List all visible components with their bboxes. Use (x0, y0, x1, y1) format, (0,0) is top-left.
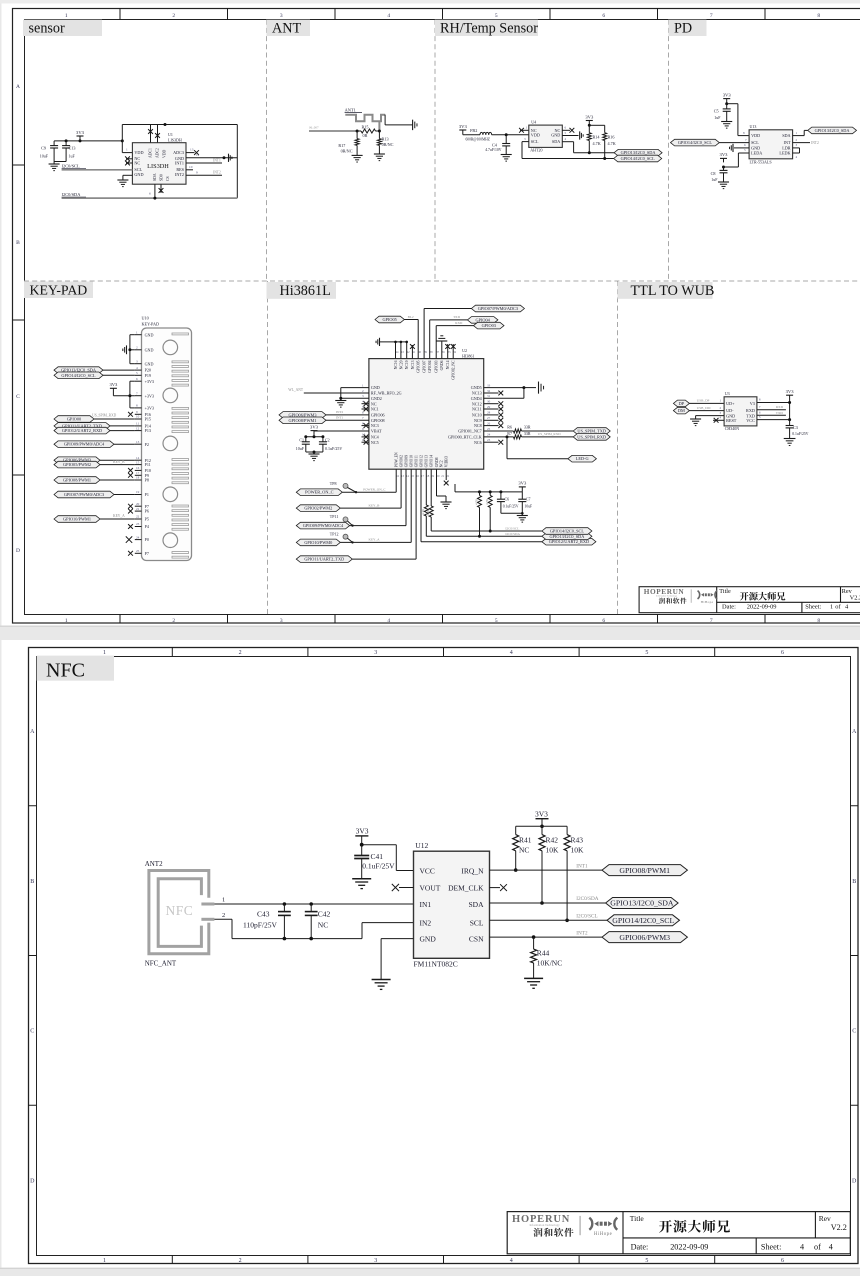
svg-text:NC10: NC10 (472, 413, 482, 418)
svg-text:INT2: INT2 (213, 171, 221, 175)
svg-text:Date:: Date: (722, 604, 736, 611)
connector U10 pins (135, 330, 154, 556)
svg-text:19: 19 (136, 490, 140, 494)
svg-text:Information Technology: Information Technology (656, 594, 678, 597)
svg-text:C2: C2 (325, 438, 330, 443)
svg-text:SD0: SD0 (160, 174, 164, 181)
svg-text:AHT20: AHT20 (530, 148, 542, 153)
svg-text:6: 6 (602, 13, 605, 19)
svg-text:GPIO05: GPIO05 (382, 317, 396, 322)
antenna ANT1 meander (345, 115, 385, 131)
svg-text:2022-09-09: 2022-09-09 (670, 1243, 708, 1252)
wire U3 GND (696, 411, 725, 419)
wire U4 GND (562, 131, 578, 136)
svg-text:VIDEO: VIDEO (445, 455, 449, 467)
no-connect U2 NC9 (484, 418, 504, 423)
node junction top rail (164, 123, 167, 126)
svg-text:GPIO10/PWM1: GPIO10/PWM1 (63, 516, 91, 521)
svg-text:INT1: INT1 (576, 863, 588, 869)
svg-text:NC19: NC19 (405, 360, 409, 369)
IC U1 LIS3DH (132, 132, 186, 184)
power 3V3 pullups NFC (535, 810, 549, 829)
svg-text:0.1uF/25V: 0.1uF/25V (792, 432, 809, 436)
wire FB2 line (463, 134, 529, 136)
svg-text:BL2: BL2 (408, 315, 414, 319)
ground arrow ANT (413, 120, 417, 130)
svg-text:D: D (30, 1178, 35, 1184)
net flag GPIO13/I2C0_SDA PD (808, 127, 857, 134)
svg-text:GPIO04: GPIO04 (428, 360, 432, 372)
svg-text:C: C (30, 1029, 34, 1035)
svg-text:I2C0/SDA: I2C0/SDA (505, 532, 520, 536)
svg-text:GND: GND (134, 172, 143, 177)
svg-text:GPIO02: GPIO02 (400, 455, 404, 467)
svg-text:GPIO11/UART2_TXD: GPIO11/UART2_TXD (304, 557, 344, 562)
svg-text:GPIO14/I2C0_SCL: GPIO14/I2C0_SCL (61, 373, 96, 378)
svg-text:GPIO08: GPIO08 (371, 418, 385, 423)
no-connect U12 DEM_CLK (490, 884, 507, 891)
svg-text:UD+: UD+ (726, 401, 735, 406)
capacitor C2 (319, 437, 342, 452)
capacitor C41 (354, 845, 395, 879)
svg-text:0R/NC: 0R/NC (382, 142, 394, 147)
node junction GND right (223, 156, 226, 159)
capacitor C4 (485, 135, 510, 155)
wire RF antenna (288, 388, 369, 393)
IC U2 left pin labels (362, 383, 402, 444)
ground C41 (352, 879, 371, 889)
svg-text:5: 5 (495, 618, 498, 624)
svg-text:NC13: NC13 (472, 391, 482, 396)
svg-text:P6: P6 (145, 509, 149, 514)
svg-text:24: 24 (487, 433, 491, 437)
no-connect U2 NC1 pin5 (362, 407, 369, 412)
net flag GPIO08/PWM1 U2 (279, 416, 369, 424)
title text page 1 (740, 592, 786, 601)
wire GPIO13 route (421, 469, 542, 536)
net flag GPIO11/UART2_TXD KP (54, 423, 135, 430)
svg-text:P4: P4 (145, 524, 149, 529)
svg-text:RH/Temp Sensor: RH/Temp Sensor (440, 20, 538, 36)
net flag GPIO00 (54, 414, 135, 423)
svg-text:10K: 10K (571, 846, 585, 855)
wire pullup rail NFC (516, 826, 567, 834)
svg-text:POW_EN: POW_EN (395, 452, 399, 467)
no-connect U4 NC1 (519, 126, 529, 133)
svg-text:C41: C41 (371, 852, 384, 861)
capacitor C7 (518, 492, 532, 513)
power 3V3 U3 (786, 389, 795, 395)
svg-text:10: 10 (136, 415, 140, 419)
no-connect U2 NC14 (445, 344, 450, 359)
ground GND8 (440, 502, 451, 509)
node junction R13 (378, 130, 381, 133)
net flag GPIO05/PWM2 KP (54, 460, 135, 468)
svg-text:6: 6 (149, 192, 151, 196)
wire GPIO14 route (426, 469, 542, 531)
svg-text:NC5: NC5 (371, 440, 379, 445)
net flag GPIO08/PWM1 KP (54, 477, 135, 484)
svg-text:7: 7 (710, 618, 713, 624)
IC U12 FM11NT082C (414, 841, 490, 969)
svg-text:INT2: INT2 (811, 141, 819, 145)
svg-text:GPIO03: GPIO03 (482, 323, 496, 328)
svg-text:4.7K: 4.7K (608, 141, 616, 146)
section title ANT (267, 20, 311, 37)
page 2 sheet (2, 640, 860, 1268)
svg-text:FB2: FB2 (470, 128, 477, 133)
power 3V3 RH (459, 124, 468, 135)
svg-text:SDA: SDA (468, 900, 484, 909)
svg-text:INT1: INT1 (175, 160, 184, 165)
svg-text:I2C0/SDA: I2C0/SDA (576, 896, 598, 902)
net flag GPIO13/I2C0_SDA U2 (505, 532, 592, 540)
svg-text:VCC: VCC (420, 866, 435, 875)
svg-text:3V3: 3V3 (535, 810, 548, 819)
svg-text:GND4: GND4 (471, 396, 482, 401)
ground C8 (718, 182, 729, 189)
svg-text:P13: P13 (145, 428, 151, 433)
svg-text:18: 18 (136, 476, 140, 480)
wire SDA stub (154, 184, 156, 198)
ground arrow U2 top (376, 338, 379, 346)
wire INT2 (186, 171, 222, 176)
svg-text:3V3: 3V3 (720, 152, 729, 157)
IC U2 top pin labels (394, 350, 457, 380)
resistor pullup SCL (485, 492, 492, 533)
svg-text:GND: GND (371, 385, 380, 390)
svg-text:INT1: INT1 (336, 416, 344, 420)
ground C3 (784, 439, 796, 446)
node junction pullup rail (588, 124, 591, 127)
net flag GPIO09/PWM0/ADC4 KP (54, 441, 135, 448)
no-connect U2 GPIO02_NC (451, 344, 456, 359)
svg-text:C3: C3 (793, 425, 798, 430)
svg-text:P0: P0 (145, 537, 149, 542)
svg-text:6: 6 (781, 1258, 784, 1264)
svg-text:6: 6 (602, 618, 605, 624)
svg-text:R7: R7 (507, 431, 512, 436)
svg-text:NC13: NC13 (411, 360, 415, 369)
svg-text:KEY-PAD: KEY-PAD (30, 282, 88, 297)
svg-text:NC: NC (318, 921, 328, 930)
wire U3 V3 (757, 395, 791, 421)
net flag GPIO14/I2C0_SCL NFC (607, 915, 680, 926)
svg-text:P11: P11 (145, 462, 151, 467)
svg-text:C: C (16, 394, 20, 400)
wire SCL NFC (490, 914, 608, 921)
ground sensor caps (49, 162, 60, 171)
svg-text:3V3: 3V3 (310, 424, 319, 429)
svg-text:3: 3 (374, 650, 377, 656)
no-connect NC pin3 (125, 161, 132, 166)
svg-text:TP8: TP8 (330, 481, 337, 486)
ground U12 (372, 980, 391, 990)
svg-text:15: 15 (136, 460, 140, 464)
svg-text:VCC: VCC (746, 418, 755, 423)
svg-text:10: 10 (189, 165, 193, 169)
no-connect U2 NC8 (484, 423, 504, 428)
svg-text:GND5: GND5 (471, 385, 482, 390)
svg-text:C9: C9 (41, 146, 46, 151)
svg-text:of: of (835, 604, 841, 611)
svg-text:21: 21 (136, 507, 140, 511)
svg-text:7: 7 (710, 13, 713, 19)
net flag GPIO13/I2C0_SDA NFC (606, 898, 679, 909)
no-connect ADC2 (155, 133, 160, 138)
svg-text:GPIO05: GPIO05 (417, 360, 421, 372)
svg-text:+3V3: +3V3 (145, 406, 154, 411)
svg-text:4: 4 (387, 13, 390, 19)
svg-text:0.1uF/25V: 0.1uF/25V (503, 505, 519, 509)
wire PD INT (793, 138, 819, 145)
svg-text:SCL: SCL (531, 139, 539, 144)
svg-text:3V3: 3V3 (109, 382, 118, 387)
svg-text:A: A (852, 729, 857, 735)
svg-text:R43: R43 (571, 836, 584, 845)
svg-text:C5: C5 (714, 109, 719, 114)
wire U4 SCL (522, 137, 529, 159)
svg-text:HI3861: HI3861 (462, 353, 474, 358)
svg-text:P1: P1 (145, 492, 149, 497)
svg-text:A: A (16, 84, 20, 90)
svg-text:4: 4 (510, 650, 513, 656)
node junction C4 (505, 133, 508, 136)
svg-text:5: 5 (645, 650, 648, 656)
svg-text:GPIO14/I2C0_SCL: GPIO14/I2C0_SCL (678, 140, 713, 145)
svg-text:GPIO09: GPIO09 (404, 455, 408, 467)
svg-text:NC3: NC3 (371, 423, 379, 428)
wire LED-G branch (506, 435, 568, 458)
power 3V3 pullups RH (585, 114, 594, 125)
svg-text:US_SPIM_TXD: US_SPIM_TXD (577, 428, 606, 433)
svg-text:TP11: TP11 (330, 514, 339, 519)
svg-text:C7: C7 (526, 497, 531, 502)
svg-text:REST: REST (726, 418, 737, 423)
ground U2 left (335, 401, 346, 408)
svg-text:GND: GND (145, 332, 154, 337)
svg-text:U12: U12 (415, 841, 428, 850)
svg-text:GPIO13/I2C0_SDA: GPIO13/I2C0_SDA (610, 899, 674, 908)
svg-text:TXD: TXD (776, 411, 784, 415)
svg-text:NC8: NC8 (474, 423, 482, 428)
svg-text:4.7K: 4.7K (426, 509, 430, 516)
svg-text:GND: GND (551, 133, 560, 138)
svg-text:NC11: NC11 (472, 407, 482, 412)
no-connect KP pin20 (128, 504, 133, 509)
no-connect U2 NC4 (362, 435, 369, 440)
testpoint TP8 (330, 481, 357, 493)
svg-text:LEDA: LEDA (751, 151, 762, 156)
svg-text:GND6: GND6 (440, 360, 444, 370)
svg-text:US_SPIM_RXD: US_SPIM_RXD (92, 414, 117, 418)
ground C5 (721, 122, 732, 129)
resistor R15 (357, 124, 379, 138)
svg-text:GPIO08/PWM1: GPIO08/PWM1 (289, 418, 317, 423)
svg-text:SDA: SDA (552, 139, 560, 144)
wire I2C0/SDA (62, 197, 238, 199)
no-connect U2 NC10 (484, 413, 504, 418)
svg-text:A: A (30, 729, 35, 735)
wire IRQ_N (490, 863, 603, 870)
capacitor C42 (305, 902, 331, 940)
svg-text:DEM_CLK: DEM_CLK (448, 883, 484, 892)
svg-text:B: B (16, 240, 20, 246)
svg-text:+3V3: +3V3 (145, 379, 154, 384)
wire top gnd stubs (380, 341, 415, 359)
svg-text:8: 8 (817, 13, 820, 19)
svg-text:R17: R17 (338, 143, 345, 148)
svg-text:P2: P2 (145, 442, 149, 447)
svg-text:1: 1 (65, 618, 68, 624)
svg-text:INT2: INT2 (336, 410, 344, 414)
section title KEY-PAD (24, 282, 93, 299)
svg-text:Date:: Date: (631, 1243, 649, 1252)
wire PD SDA (793, 130, 808, 135)
capacitor C6 (497, 492, 519, 513)
ferrite bead FB2 (466, 128, 492, 142)
svg-text:NFC: NFC (46, 660, 85, 682)
node junction C13 (65, 139, 68, 142)
no-connect U3 REST (713, 416, 724, 423)
svg-text:VBAT: VBAT (371, 429, 382, 434)
svg-text:TXD: TXD (453, 315, 461, 319)
node junction R17 (356, 130, 359, 133)
svg-text:NC12: NC12 (472, 401, 482, 406)
wire U3 VCC (757, 415, 790, 420)
svg-text:KEY-PAD: KEY-PAD (142, 321, 160, 326)
resistor R14 (587, 125, 600, 152)
svg-text:Sheet:: Sheet: (761, 1243, 781, 1252)
svg-text:Rev: Rev (819, 1214, 831, 1223)
svg-text:R14: R14 (593, 134, 601, 139)
svg-text:CH340N: CH340N (725, 426, 740, 431)
svg-text:4: 4 (829, 1243, 833, 1252)
svg-text:12: 12 (136, 426, 140, 430)
svg-text:C6: C6 (505, 497, 510, 502)
wire GND pin5 (123, 175, 132, 180)
IC U13 LTR-553ALS (749, 124, 793, 165)
IC U2 right pin labels (448, 383, 491, 444)
net label ANT1 (345, 108, 362, 113)
svg-text:GPIO08/PWM1: GPIO08/PWM1 (619, 866, 670, 875)
svg-text:20: 20 (136, 502, 140, 506)
net flag GPIO10/PWM0 (296, 469, 411, 546)
title text page 2 (659, 1220, 730, 1233)
svg-text:GPIO14/I2C0_SCL: GPIO14/I2C0_SCL (621, 156, 656, 161)
power 3V3 PD1 (723, 92, 732, 103)
testpoint TP12 (330, 532, 354, 544)
wire U2 GND pins (339, 388, 369, 401)
wire C6 C7 bottom (501, 512, 524, 515)
svg-text:29: 29 (487, 405, 491, 409)
svg-text:+3V3: +3V3 (145, 393, 154, 398)
node junction SDA (153, 197, 156, 200)
ground C4 (501, 155, 512, 162)
svg-text:4.7K: 4.7K (593, 141, 601, 146)
power 3V3 C41 (355, 827, 368, 845)
svg-text:I2C0/SCL: I2C0/SCL (505, 527, 519, 531)
svg-text:9: 9 (196, 171, 198, 175)
svg-text:1: 1 (103, 1258, 106, 1264)
svg-text:2022-09-09: 2022-09-09 (747, 604, 777, 611)
svg-text:C42: C42 (318, 910, 331, 919)
net label I2C0/SCL (62, 164, 86, 169)
svg-text:ANT: ANT (272, 20, 301, 36)
svg-text:1uF: 1uF (714, 115, 721, 120)
svg-text:IN2: IN2 (420, 918, 432, 927)
net flag GPIO03 top (436, 321, 504, 359)
svg-text:32: 32 (487, 389, 491, 393)
wire cap bus bottom (306, 451, 323, 454)
svg-text:LIS3DH: LIS3DH (168, 137, 182, 142)
svg-text:USB_DM: USB_DM (697, 406, 711, 410)
svg-text:V2.2: V2.2 (831, 1223, 847, 1232)
section dividers page 1 (24, 20, 860, 614)
net flag GPIO13/I2C0_SDA KP (54, 367, 135, 374)
svg-text:NFC_ANT: NFC_ANT (145, 960, 177, 968)
svg-text:110pF/25V: 110pF/25V (243, 921, 277, 930)
wire VDD corner (122, 125, 132, 153)
svg-text:GPIO01_NC7: GPIO01_NC7 (458, 429, 481, 434)
svg-text:V2.2: V2.2 (850, 594, 860, 601)
svg-text:VDD: VDD (163, 150, 167, 158)
wire NFC IN2 (362, 923, 414, 939)
wire ADC3 stub (186, 148, 195, 153)
svg-text:10K: 10K (546, 846, 560, 855)
svg-text:GPIO02_NC: GPIO02_NC (452, 360, 456, 380)
wire ADC2 stub (157, 125, 159, 143)
svg-text:17: 17 (136, 471, 140, 475)
svg-text:Hi3861L: Hi3861L (280, 283, 331, 299)
svg-text:R16: R16 (608, 134, 615, 139)
svg-text:22: 22 (136, 515, 140, 519)
svg-text:Information Technology: Information Technology (529, 1223, 560, 1227)
net flag GPIO04 top (430, 315, 498, 359)
svg-text:SDA: SDA (782, 133, 790, 138)
net flag GPIO14/I2C0_SCL RH (614, 155, 662, 162)
svg-text:3V3: 3V3 (76, 130, 85, 135)
svg-text:GPIO00_RTC_CLK: GPIO00_RTC_CLK (448, 435, 482, 440)
svg-text:GPIO14: GPIO14 (430, 455, 434, 467)
svg-text:HiHope: HiHope (594, 1232, 612, 1237)
wire U4 SDA (562, 137, 614, 153)
title block page 2 (507, 1212, 850, 1254)
svg-text:CS: CS (166, 176, 170, 181)
wire antenna feed (309, 126, 357, 132)
svg-text:I2C0/SDA: I2C0/SDA (62, 192, 82, 197)
svg-text:13: 13 (190, 148, 194, 152)
svg-text:0R/NC: 0R/NC (341, 148, 353, 153)
node junction R16 SCL (603, 157, 606, 160)
svg-text:NC6: NC6 (474, 440, 482, 445)
svg-text:KEY_B: KEY_B (113, 460, 125, 464)
svg-text:33R: 33R (524, 424, 531, 429)
wire top loop rail (122, 124, 237, 126)
svg-text:1: 1 (65, 13, 68, 19)
no-connect U2 VIDEO (444, 469, 449, 485)
net flag GPIO09/PWM0/ADC4 (296, 469, 406, 529)
IC U4 AHT20 (529, 120, 563, 153)
wire NFC pin1 (214, 897, 413, 905)
svg-text:VOUT: VOUT (420, 883, 441, 892)
svg-text:RXD: RXD (455, 321, 463, 325)
wire RES stub (186, 165, 193, 170)
net flag GPIO05 (375, 315, 418, 359)
svg-text:25: 25 (487, 427, 491, 431)
svg-text:24: 24 (136, 535, 140, 539)
net flag GPIO07/PWM0/ADC3 top (424, 305, 524, 358)
